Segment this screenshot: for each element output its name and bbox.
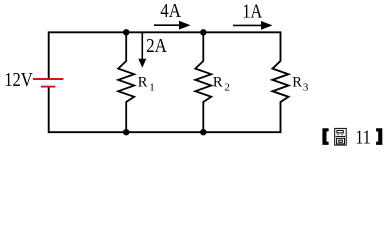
svg-text:4A: 4A (160, 1, 181, 22)
resistor R2 branch wire + zigzag (195, 32, 211, 132)
svg-text:R: R (213, 75, 223, 91)
junction dot bottom R2 (200, 129, 206, 135)
svg-text:1A: 1A (242, 2, 262, 23)
current arrow 2A (down through R1) (141, 33, 143, 60)
resistor R1 branch wire + zigzag (118, 32, 134, 132)
svg-text:3: 3 (303, 82, 309, 94)
caption glyph 圖 (335, 128, 347, 145)
svg-text:R: R (138, 75, 148, 91)
svg-text:2: 2 (224, 82, 230, 94)
svg-text:12V: 12V (4, 69, 33, 91)
wire outer loop with R3 zigzag on right side (49, 32, 289, 132)
current arrow 1A (233, 24, 262, 26)
svg-text:R: R (292, 75, 302, 91)
current arrow 4A (154, 24, 180, 26)
svg-text:1: 1 (149, 82, 155, 94)
caption bracket right 】 (376, 128, 382, 145)
caption bracket left 【 (322, 128, 328, 145)
svg-text:11: 11 (355, 126, 370, 148)
junction dot top R1 (123, 29, 129, 35)
junction dot top R2 (200, 29, 206, 35)
battery V1 plate short (-) (41, 86, 55, 88)
battery V1 plate long (+) (33, 78, 63, 80)
junction dot bottom R1 (123, 129, 129, 135)
svg-text:2A: 2A (146, 36, 167, 57)
